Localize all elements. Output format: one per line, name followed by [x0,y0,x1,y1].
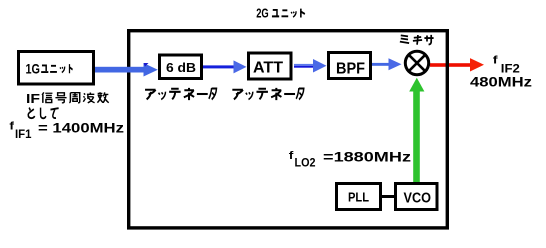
title: 2G unit [256,6,305,21]
1G unit label [26,61,73,76]
svg-text:IF1: IF1 [15,127,32,141]
svg-text:6 dB: 6 dB [166,60,196,75]
ATT attenuator box [249,53,292,79]
BPF box [329,53,371,79]
toshite text [28,108,58,119]
1G unit box [19,52,94,85]
f LO2 = 1880MHz label [289,149,412,169]
6 dB attenuator box [160,55,202,79]
svg-text:=1880MHz: =1880MHz [323,149,411,164]
svg-text:f: f [493,55,498,67]
blue arrow ATT -> BPF [294,59,327,73]
blue arrow 6dB -> ATT [203,60,247,73]
big blue arrow 1G -> 6dB [95,63,158,77]
svg-text:VCO: VCO [404,190,432,206]
red output arrow (under box border) [430,58,484,71]
svg-text:BPF: BPF [336,60,365,77]
f IF1 = 1400MHz label [9,120,124,140]
svg-text:= 1400MHz: = 1400MHz [38,120,124,135]
f IF2 480MHz label [470,55,532,90]
svg-text:1G: 1G [26,61,41,76]
svg-text:PLL: PLL [348,191,369,205]
svg-text:LO2: LO2 [295,156,316,170]
svg-text:2G: 2G [256,6,269,21]
IF signal text block [26,91,109,106]
attenuator label 2 [232,88,303,100]
mixer circle with X [405,51,428,74]
blue arrow BPF -> mixer [372,58,402,70]
2G unit outer box [129,31,448,228]
attenuator label 1 [145,88,216,100]
svg-text:ATT: ATT [253,60,283,77]
svg-text:f: f [289,150,294,162]
svg-text:f: f [9,121,14,133]
PLL-VCO connector wire [381,195,395,198]
VCO box [396,184,438,210]
green LO arrow VCO -> mixer [409,78,424,182]
mixer label [400,35,434,45]
PLL box [337,184,381,210]
svg-text:480MHz: 480MHz [470,74,532,90]
svg-text:IF: IF [26,91,40,106]
